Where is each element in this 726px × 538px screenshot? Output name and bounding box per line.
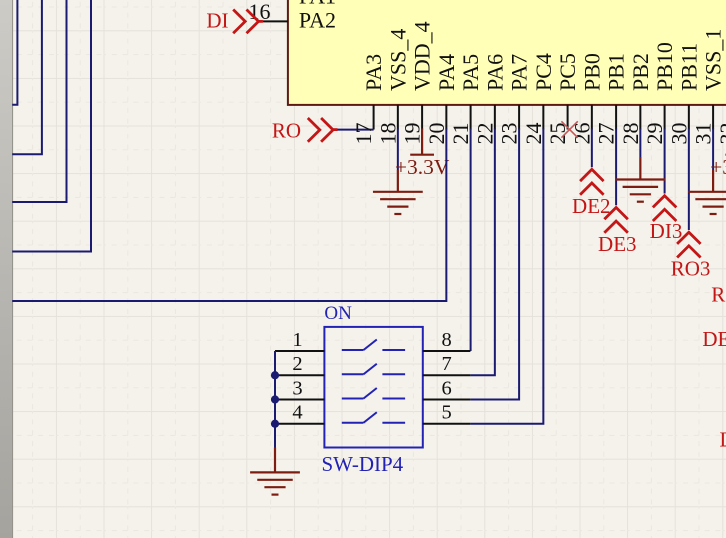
wire net B: [12, 0, 42, 154]
svg-text:21: 21: [448, 123, 473, 145]
svg-text:VSS_4: VSS_4: [385, 29, 410, 91]
pin 20 stub (PA4): [445, 105, 447, 130]
svg-text:3: 3: [292, 377, 302, 399]
IC body (partial, off-screen top/right): [288, 0, 726, 105]
pin 22 stub (PA6): [494, 105, 496, 130]
pin 19 stub (VDD_4): [421, 105, 423, 130]
svg-text:RO: RO: [272, 119, 301, 143]
port DI chevrons: [233, 10, 263, 34]
svg-text:R: R: [711, 283, 725, 307]
svg-text:18: 18: [375, 123, 400, 145]
junction dot SW pin 4: [271, 420, 279, 428]
SW pin 7 stub: [423, 374, 471, 376]
pin 29 stub (PB10): [664, 105, 666, 130]
svg-text:PA5: PA5: [458, 54, 483, 91]
wire pin23 to SW pin6: [470, 129, 519, 400]
svg-text:DI: DI: [206, 8, 228, 32]
svg-text:PA6: PA6: [482, 54, 507, 91]
SW pin 4 stub: [275, 423, 324, 425]
ground stem pin31: [712, 170, 714, 192]
SW pin 2 stub: [275, 374, 324, 376]
svg-text:19: 19: [400, 123, 425, 145]
svg-text:17: 17: [351, 123, 376, 145]
svg-text:20: 20: [424, 123, 449, 145]
wire SW left bus: [274, 351, 276, 448]
ground stem SW bus: [274, 448, 276, 473]
svg-text:31: 31: [691, 123, 716, 145]
wire RO to pin17: [338, 129, 374, 131]
pin 18 stub (VSS_4): [397, 105, 399, 130]
svg-text:VDD_4: VDD_4: [410, 21, 435, 91]
svg-text:RO3: RO3: [671, 256, 711, 280]
svg-text:DE: DE: [702, 327, 726, 351]
svg-text:5: 5: [441, 402, 451, 424]
pin 30 stub (PB11): [688, 105, 690, 130]
pin 17 stub (PA3): [373, 105, 375, 130]
svg-text:PB10: PB10: [652, 42, 677, 91]
no-connect X pin25: [561, 121, 577, 137]
ground stem pin28: [639, 157, 641, 180]
pin 23 stub (PA7): [518, 105, 520, 130]
wire pin21 to SW pin8: [470, 129, 472, 352]
wire pin28: [639, 129, 641, 158]
ground SW bus: [251, 472, 299, 494]
wire pin to port DI3: [664, 129, 666, 194]
svg-text:29: 29: [642, 123, 667, 145]
svg-text:PA7: PA7: [507, 54, 532, 91]
svg-text:DE3: DE3: [598, 232, 637, 256]
svg-text:PC5: PC5: [555, 53, 580, 91]
svg-text:VSS_1: VSS_1: [701, 29, 726, 91]
wire pin22 to SW pin7: [470, 129, 494, 376]
wire net D: [12, 0, 91, 252]
svg-text:ON: ON: [324, 303, 352, 324]
wire net A (leftmost): [12, 0, 17, 105]
svg-text:DI3: DI3: [650, 219, 683, 243]
pin 16 stub: [263, 20, 288, 22]
power +3.3V pin19 bar: [410, 154, 434, 156]
ground pin28: [617, 180, 665, 202]
ground pin31: [689, 192, 726, 214]
svg-text:DE2: DE2: [572, 194, 611, 218]
pin 26 stub (PB0): [591, 105, 593, 130]
wire pin18: [397, 129, 399, 171]
power +3.3V pin19 stem: [421, 129, 423, 155]
svg-text:PB0: PB0: [579, 53, 604, 91]
switch element 3: [342, 388, 405, 399]
svg-text:30: 30: [666, 123, 691, 145]
ground pin18: [374, 192, 422, 214]
svg-text:2: 2: [292, 353, 302, 375]
svg-text:PB11: PB11: [676, 43, 701, 91]
wire net C: [12, 0, 66, 202]
switch S? SW-DIP4 body: [324, 327, 422, 448]
pin 28 stub (PB2): [639, 105, 641, 130]
pin 24 stub (PC4): [542, 105, 544, 130]
ground stem pin18: [397, 170, 399, 192]
svg-text:6: 6: [441, 377, 451, 399]
port DE3 chevrons: [604, 208, 628, 233]
svg-text:23: 23: [497, 123, 522, 145]
junction dot SW pin 2: [271, 371, 279, 379]
pin 21 stub (PA5): [470, 105, 472, 130]
svg-text:1: 1: [292, 329, 302, 351]
svg-text:PC4: PC4: [531, 53, 556, 91]
SW pin 6 stub: [423, 399, 471, 401]
svg-text:28: 28: [618, 123, 643, 145]
switch element 2: [342, 364, 405, 375]
svg-text:+3.3V: +3.3V: [395, 155, 450, 179]
svg-text:PB1: PB1: [604, 53, 629, 91]
wire pin24 to SW pin5: [470, 129, 543, 424]
SW pin 1 stub: [275, 350, 324, 352]
svg-text:4: 4: [292, 402, 302, 424]
wire pin20 long net: [12, 129, 446, 302]
svg-text:7: 7: [441, 353, 451, 375]
svg-text:8: 8: [441, 329, 451, 351]
switch element 4: [342, 412, 405, 423]
svg-text:D: D: [720, 428, 726, 452]
junction dot SW pin 3: [271, 395, 279, 403]
svg-text:+3.3V: +3.3V: [710, 155, 726, 179]
svg-text:22: 22: [472, 123, 497, 145]
port DE2 chevrons: [580, 169, 604, 194]
pin 25 stub (PC5): [567, 105, 569, 130]
pin 27 stub (PB1): [615, 105, 617, 130]
pin 31 stub (VSS_1): [712, 105, 714, 130]
SW pin 8 stub: [423, 350, 471, 352]
svg-text:PA3: PA3: [361, 54, 386, 91]
power +3.3V pin32 (clipped): [725, 154, 726, 156]
svg-text:PA4: PA4: [434, 54, 459, 91]
svg-text:27: 27: [594, 123, 619, 145]
svg-text:24: 24: [521, 123, 546, 145]
svg-text:SW-DIP4: SW-DIP4: [322, 452, 404, 476]
SW pin 5 stub: [423, 423, 471, 425]
wire pin31: [712, 129, 714, 171]
svg-text:PA2: PA2: [299, 8, 336, 33]
wire pin to port DE3: [615, 129, 617, 206]
wire pin to port DE2: [591, 129, 593, 168]
port RO chevrons: [308, 118, 338, 142]
port DI3 chevrons: [653, 196, 677, 221]
svg-text:32: 32: [715, 123, 726, 145]
SW pin 3 stub: [275, 399, 324, 401]
svg-text:PB2: PB2: [628, 53, 653, 91]
port RO3 chevrons: [677, 232, 701, 257]
wire pin to port RO3: [688, 129, 690, 231]
switch element 1: [342, 340, 405, 351]
